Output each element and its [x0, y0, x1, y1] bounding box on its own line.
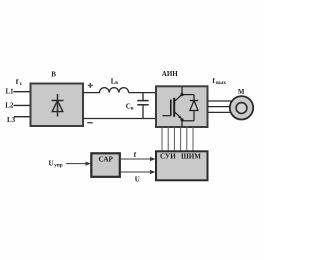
- svg-text:c: c: [20, 81, 23, 87]
- wire top rail from inductor to inverter: [129, 92, 156, 94]
- label plus: [88, 83, 93, 88]
- svg-text:f: f: [16, 77, 19, 86]
- svg-text:L2: L2: [5, 102, 14, 110]
- svg-text:АИН: АИН: [162, 70, 179, 78]
- svg-text:L1: L1: [6, 88, 15, 96]
- motor M: [230, 89, 253, 120]
- label minus: [87, 122, 92, 124]
- svg-text:f: f: [134, 151, 137, 159]
- inverter AIN: [156, 70, 208, 127]
- label fc: [16, 77, 23, 87]
- wire Uupr arrow: [66, 162, 91, 166]
- svg-text:в: в: [115, 80, 118, 86]
- svg-text:в: в: [131, 105, 134, 111]
- wire U arrow: [120, 170, 156, 183]
- svg-text:М: М: [238, 89, 245, 96]
- wire motor phase 1: [208, 100, 231, 102]
- gate wires from AIN to SUI: [162, 127, 193, 151]
- label Uupr: [49, 160, 63, 169]
- node L2: [5, 102, 30, 110]
- node L1: [6, 88, 31, 96]
- svg-text:СУИ: СУИ: [160, 153, 176, 161]
- IGBT inside AIN: [163, 87, 184, 127]
- svg-text:В: В: [51, 71, 56, 79]
- inductor Lv: [100, 77, 129, 92]
- rectifier B: [31, 71, 84, 126]
- diode inside B: [52, 94, 64, 117]
- wire top rail from B to inductor: [83, 92, 100, 94]
- block SUI SHIM: [156, 151, 208, 180]
- node L3: [7, 116, 30, 124]
- capacitor Cv: [126, 93, 149, 119]
- wire motor phase 3: [208, 111, 231, 113]
- svg-text:ШИМ: ШИМ: [181, 153, 201, 161]
- wire motor phase 2: [208, 106, 230, 108]
- svg-text:САР: САР: [99, 156, 114, 164]
- wire f arrow: [120, 151, 156, 161]
- diode inside AIN: [182, 95, 198, 121]
- wire bottom rail: [83, 118, 156, 120]
- svg-text:вых: вых: [216, 80, 226, 86]
- block SAR: [91, 153, 120, 177]
- svg-text:U: U: [135, 175, 140, 183]
- svg-text:упр: упр: [54, 163, 63, 169]
- label fvyh: [213, 77, 227, 86]
